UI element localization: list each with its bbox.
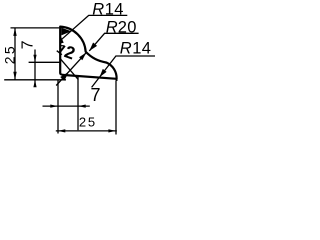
label R20: shelf and leader — [89, 33, 138, 51]
dimension 7 left — [34, 50, 36, 87]
wire vertical extension line mid — [77, 76, 79, 130]
wire vertical extension line left — [57, 80, 59, 134]
wire top extension line — [11, 27, 60, 29]
svg-text:R: R — [106, 18, 118, 36]
svg-text:14: 14 — [105, 1, 124, 19]
svg-text:R: R — [120, 40, 132, 58]
svg-text:20: 20 — [118, 18, 137, 36]
wire vertical extension line right — [115, 81, 117, 135]
label R14 top: shelf and leader — [60, 15, 127, 40]
svg-text:14: 14 — [132, 40, 151, 58]
profile outline: left edge, top arc R14, concave arc R20, right arc R14, bottom edge — [60, 27, 116, 79]
right edge stub — [116, 76, 118, 82]
dimension 12 diagonal line L — [56, 53, 86, 86]
dimension 25 bottom — [56, 130, 117, 132]
svg-text:7: 7 — [91, 85, 101, 105]
dimension 25 left — [14, 28, 16, 80]
label R14 right: shelf and leader — [92, 56, 155, 87]
wire bottom-left extension line — [4, 79, 66, 81]
dimension 7 bottom — [43, 105, 90, 107]
small arrow on left edge — [60, 36, 64, 43]
svg-text:25: 25 — [79, 115, 97, 130]
wire middle-left extension line — [29, 61, 60, 63]
svg-text:7: 7 — [19, 40, 36, 49]
svg-text:25: 25 — [1, 44, 17, 64]
svg-text:R: R — [92, 1, 104, 19]
thin diagonal line through crossing — [60, 58, 79, 79]
